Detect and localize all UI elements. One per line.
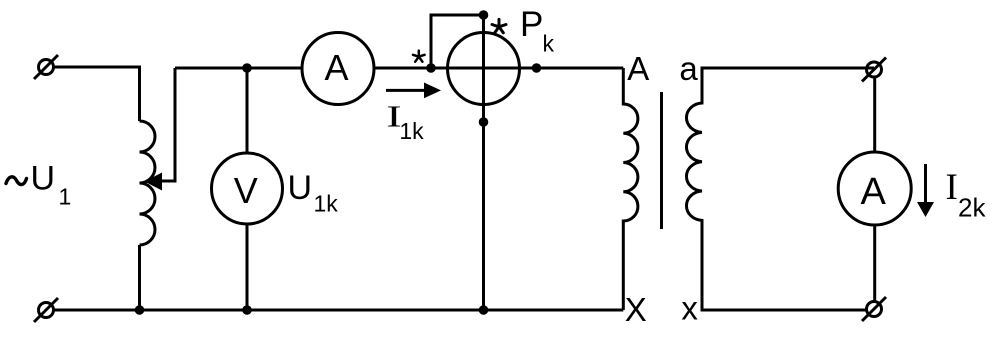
svg-text:x: x: [681, 290, 698, 327]
terminal secondary bottom-right: [862, 297, 886, 321]
label I2k current: [946, 167, 987, 223]
wire terminal to ammeter A2: [873, 77, 876, 152]
svg-text:I: I: [946, 167, 958, 208]
node junction wattmeter right: [532, 63, 542, 73]
variac wiper arrowhead: [145, 173, 163, 191]
label U1k voltmeter: [288, 169, 339, 217]
svg-text:X: X: [625, 291, 647, 328]
transformer primary winding A-X: [623, 68, 638, 310]
terminal secondary top-right: [862, 58, 886, 82]
wattmeter P_k circle: [448, 33, 520, 105]
wire voltmeter bottom lead: [246, 224, 249, 310]
svg-text:V: V: [234, 170, 258, 211]
label asterisk wattmeter current: [413, 51, 425, 62]
wattmeter voltage loop wire: [431, 15, 484, 68]
label I1k current: [386, 99, 424, 144]
svg-text:A: A: [324, 47, 348, 88]
variac wiper wire: [161, 68, 175, 181]
ammeter A1 circle: [302, 33, 374, 105]
svg-text:A: A: [627, 50, 649, 87]
label asterisk wattmeter voltage: [492, 19, 506, 32]
ammeter A2 circle: [838, 152, 911, 225]
bottom rail wire: [54, 309, 624, 312]
wire variac bottom to bottom rail: [138, 245, 141, 310]
svg-text:U: U: [31, 160, 56, 198]
variac autotransformer T1 winding: [140, 121, 156, 245]
node junction voltmeter bottom: [242, 305, 252, 315]
svg-text:1: 1: [59, 183, 72, 209]
voltmeter V circle: [212, 153, 283, 224]
node junction wattmeter bottom: [479, 305, 489, 315]
wire wiper to ammeter A1: [175, 67, 302, 70]
node junction wattmeter voltage tap left: [426, 63, 436, 73]
wattmeter vertical wire: [482, 15, 485, 310]
wire ammeter A2 to bottom terminal: [873, 225, 876, 302]
svg-text:a: a: [679, 50, 698, 87]
node junction voltmeter top: [242, 63, 252, 73]
current arrow I2k: [924, 164, 927, 203]
node junction below wattmeter: [479, 117, 489, 127]
wire ammeter A1 to wattmeter to transformer primary A: [374, 67, 623, 70]
svg-text:1k: 1k: [399, 118, 424, 144]
transformer core: [660, 92, 663, 229]
svg-text:A: A: [861, 171, 887, 213]
svg-text:2k: 2k: [958, 192, 986, 222]
svg-text:k: k: [543, 31, 555, 57]
label ~U1 source voltage: [6, 160, 71, 210]
terminal input top-left: [34, 55, 58, 79]
wire voltmeter top lead: [246, 68, 249, 154]
terminal input bottom-left: [34, 298, 58, 322]
node junction variac bottom: [135, 305, 145, 315]
svg-text:P: P: [520, 5, 543, 44]
node junction wattmeter top corner: [479, 10, 489, 20]
svg-text:1k: 1k: [314, 191, 339, 217]
label Pk wattmeter: [520, 5, 555, 56]
svg-text:U: U: [288, 169, 313, 207]
current arrow I1k: [386, 89, 426, 92]
wire input top to variac top: [54, 67, 140, 121]
transformer secondary winding a-x: [686, 68, 874, 310]
